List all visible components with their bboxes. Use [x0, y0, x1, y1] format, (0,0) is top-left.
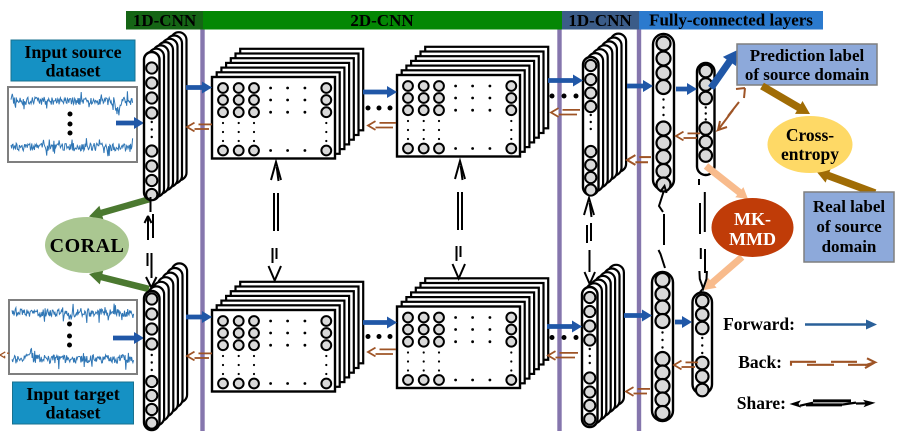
svg-text:Input target: Input target [26, 384, 120, 404]
svg-text:Prediction label: Prediction label [750, 46, 865, 65]
svg-text:Input source: Input source [24, 42, 121, 62]
svg-text:1D-CNN: 1D-CNN [133, 11, 197, 30]
svg-text:2D-CNN: 2D-CNN [350, 11, 414, 30]
svg-text:dataset: dataset [46, 61, 101, 81]
svg-text:of source domain: of source domain [745, 65, 870, 84]
svg-text:1D-CNN: 1D-CNN [568, 11, 632, 30]
svg-text:of source: of source [816, 217, 882, 236]
svg-text:MMD: MMD [729, 229, 776, 249]
svg-text:CORAL: CORAL [50, 235, 125, 257]
svg-text:Cross-: Cross- [786, 125, 834, 145]
svg-text:Forward:: Forward: [723, 314, 795, 334]
svg-text:entropy: entropy [781, 144, 839, 164]
svg-text:domain: domain [822, 237, 877, 256]
svg-text:Share:: Share: [737, 393, 786, 413]
svg-text:Real label: Real label [813, 197, 886, 216]
svg-text:Fully-connected layers: Fully-connected layers [649, 11, 813, 30]
svg-text:MK-: MK- [734, 209, 771, 229]
svg-text:dataset: dataset [46, 403, 101, 423]
svg-text:Back:: Back: [738, 352, 782, 372]
